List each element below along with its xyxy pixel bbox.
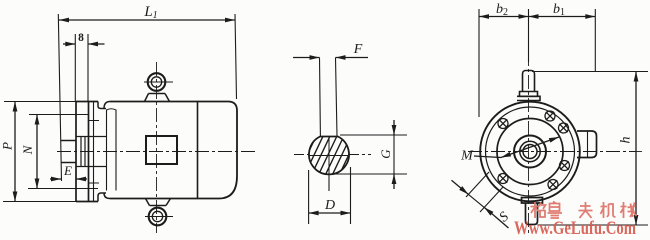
svg-text:Www.GeLufu.Com: Www.GeLufu.Com bbox=[514, 218, 636, 238]
watermark chinese char 3 bbox=[579, 202, 593, 218]
dimension P bbox=[3, 102, 76, 202]
svg-text:b1: b1 bbox=[553, 2, 565, 18]
dimension D (shaft dia) bbox=[309, 167, 351, 224]
terminal box bbox=[577, 131, 597, 158]
end view horizontal centerline bbox=[468, 151, 642, 153]
bolt hole 1 bbox=[498, 119, 508, 129]
bottom foot / plug bbox=[522, 198, 543, 204]
hub / collar behind flange bbox=[76, 137, 106, 167]
groove between bracket and body bbox=[107, 109, 117, 191]
svg-text:h: h bbox=[619, 137, 634, 144]
svg-text:S: S bbox=[497, 209, 512, 225]
bottom eyebolt bbox=[145, 199, 173, 226]
dimension b2 bbox=[479, 9, 529, 117]
dimension G bbox=[331, 120, 407, 189]
bolt hole 6 bbox=[498, 174, 508, 184]
terminal box square on body bbox=[146, 136, 177, 164]
bolt hole 2 bbox=[545, 111, 555, 121]
bracket vertical line bbox=[93, 102, 95, 202]
bracket bolt stub lines bbox=[89, 121, 100, 184]
shaft circle bbox=[523, 145, 537, 159]
watermark chinese char 1 bbox=[531, 202, 546, 218]
leader M with chord arrows bbox=[474, 137, 559, 158]
shaft bbox=[61, 141, 76, 163]
end-shield rib bbox=[197, 102, 199, 199]
end view vertical centerline bbox=[528, 52, 530, 235]
dimension h bbox=[532, 72, 648, 226]
dimension L1 bbox=[58, 14, 236, 181]
motor body outline bbox=[110, 102, 237, 199]
top eyebolt bbox=[144, 73, 173, 101]
dimension S (hole dia) bbox=[452, 172, 509, 228]
svg-text:P: P bbox=[0, 142, 15, 151]
outer flange circle bbox=[480, 102, 580, 202]
svg-text:b2: b2 bbox=[496, 2, 508, 18]
vertical centerline through eyebolts bbox=[156, 62, 158, 233]
hatching bbox=[295, 125, 365, 194]
bolt hole 5 bbox=[548, 180, 558, 190]
body left edge / neck fillets bbox=[98, 102, 110, 109]
hub circle bbox=[514, 136, 546, 168]
dimension N bbox=[28, 115, 98, 189]
bolt hole 4 bbox=[560, 161, 570, 171]
svg-text:8: 8 bbox=[78, 32, 84, 44]
watermark chinese char 5 bbox=[621, 202, 637, 218]
dimension b1 bbox=[529, 9, 596, 72]
spigot circle bbox=[497, 119, 563, 185]
svg-text:L1: L1 bbox=[143, 4, 157, 21]
watermark chinese char 2 bbox=[548, 202, 563, 219]
watermark chinese char 4 bbox=[601, 202, 616, 218]
shaft section circle with keyway flat bbox=[309, 137, 349, 175]
hub middle circle bbox=[520, 141, 540, 161]
second ring bbox=[486, 107, 575, 196]
svg-text:M: M bbox=[460, 149, 474, 164]
svg-text:D: D bbox=[324, 198, 335, 213]
svg-text:N: N bbox=[20, 144, 35, 155]
shaft stack at top bbox=[523, 71, 535, 92]
dimension F (key width) bbox=[293, 58, 368, 137]
flange plate bbox=[76, 102, 98, 202]
horizontal centerline of left view bbox=[57, 151, 258, 153]
bolt hole 3 bbox=[559, 123, 569, 133]
section centerlines bbox=[309, 155, 349, 157]
svg-text:G: G bbox=[378, 149, 393, 159]
dimension E bbox=[50, 178, 87, 180]
svg-text:F: F bbox=[353, 42, 363, 57]
svg-text:E: E bbox=[63, 163, 72, 178]
dimension 8 (flange thickness) bbox=[63, 34, 105, 101]
